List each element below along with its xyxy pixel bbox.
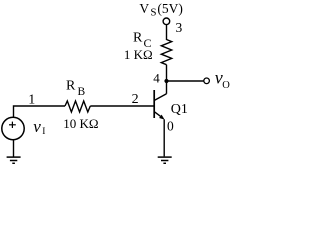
plus sign inside source bbox=[9, 122, 16, 128]
svg-text:4: 4 bbox=[153, 71, 160, 86]
transistor Q1 emitter arrowhead bbox=[159, 115, 165, 120]
wire Rc bottom to node 4 bbox=[166, 65, 168, 81]
wire node 4 down to collector bbox=[166, 81, 168, 94]
wire RB to base bbox=[90, 105, 153, 107]
svg-text:2: 2 bbox=[132, 92, 139, 107]
svg-text:1 KΩ: 1 KΩ bbox=[124, 47, 153, 62]
resistor RB zigzag bbox=[65, 101, 90, 112]
wire supply terminal to Rc top bbox=[166, 25, 168, 40]
ground symbol below emitter bbox=[158, 157, 172, 163]
node 4 junction dot bbox=[164, 79, 168, 83]
svg-text:O: O bbox=[222, 80, 230, 91]
transistor Q1 collector lead bbox=[155, 94, 167, 101]
node Vs supply terminal circle bbox=[163, 18, 170, 25]
node vO output terminal circle bbox=[204, 78, 210, 84]
ground symbol below source bbox=[7, 157, 21, 163]
svg-text:VS(5V): VS(5V) bbox=[139, 1, 182, 19]
resistor RC zigzag bbox=[161, 40, 171, 65]
svg-text:v: v bbox=[33, 117, 41, 136]
svg-text:1: 1 bbox=[28, 93, 35, 108]
wire emitter down to ground bbox=[163, 119, 165, 156]
wire source bottom to ground bbox=[13, 139, 15, 156]
svg-text:I: I bbox=[42, 127, 45, 137]
svg-text:10 KΩ: 10 KΩ bbox=[63, 116, 98, 131]
svg-text:0: 0 bbox=[167, 119, 174, 134]
svg-text:3: 3 bbox=[176, 20, 183, 35]
voltage source vI circle bbox=[2, 117, 24, 139]
transistor Q1 emitter lead bbox=[155, 112, 161, 116]
svg-text:Q1: Q1 bbox=[171, 102, 188, 117]
transistor Q1 base bar bbox=[153, 90, 155, 118]
wire node 4 to output terminal bbox=[167, 80, 204, 82]
wire source top and base wire to RB bbox=[14, 106, 66, 117]
svg-text:RB: RB bbox=[66, 79, 86, 98]
